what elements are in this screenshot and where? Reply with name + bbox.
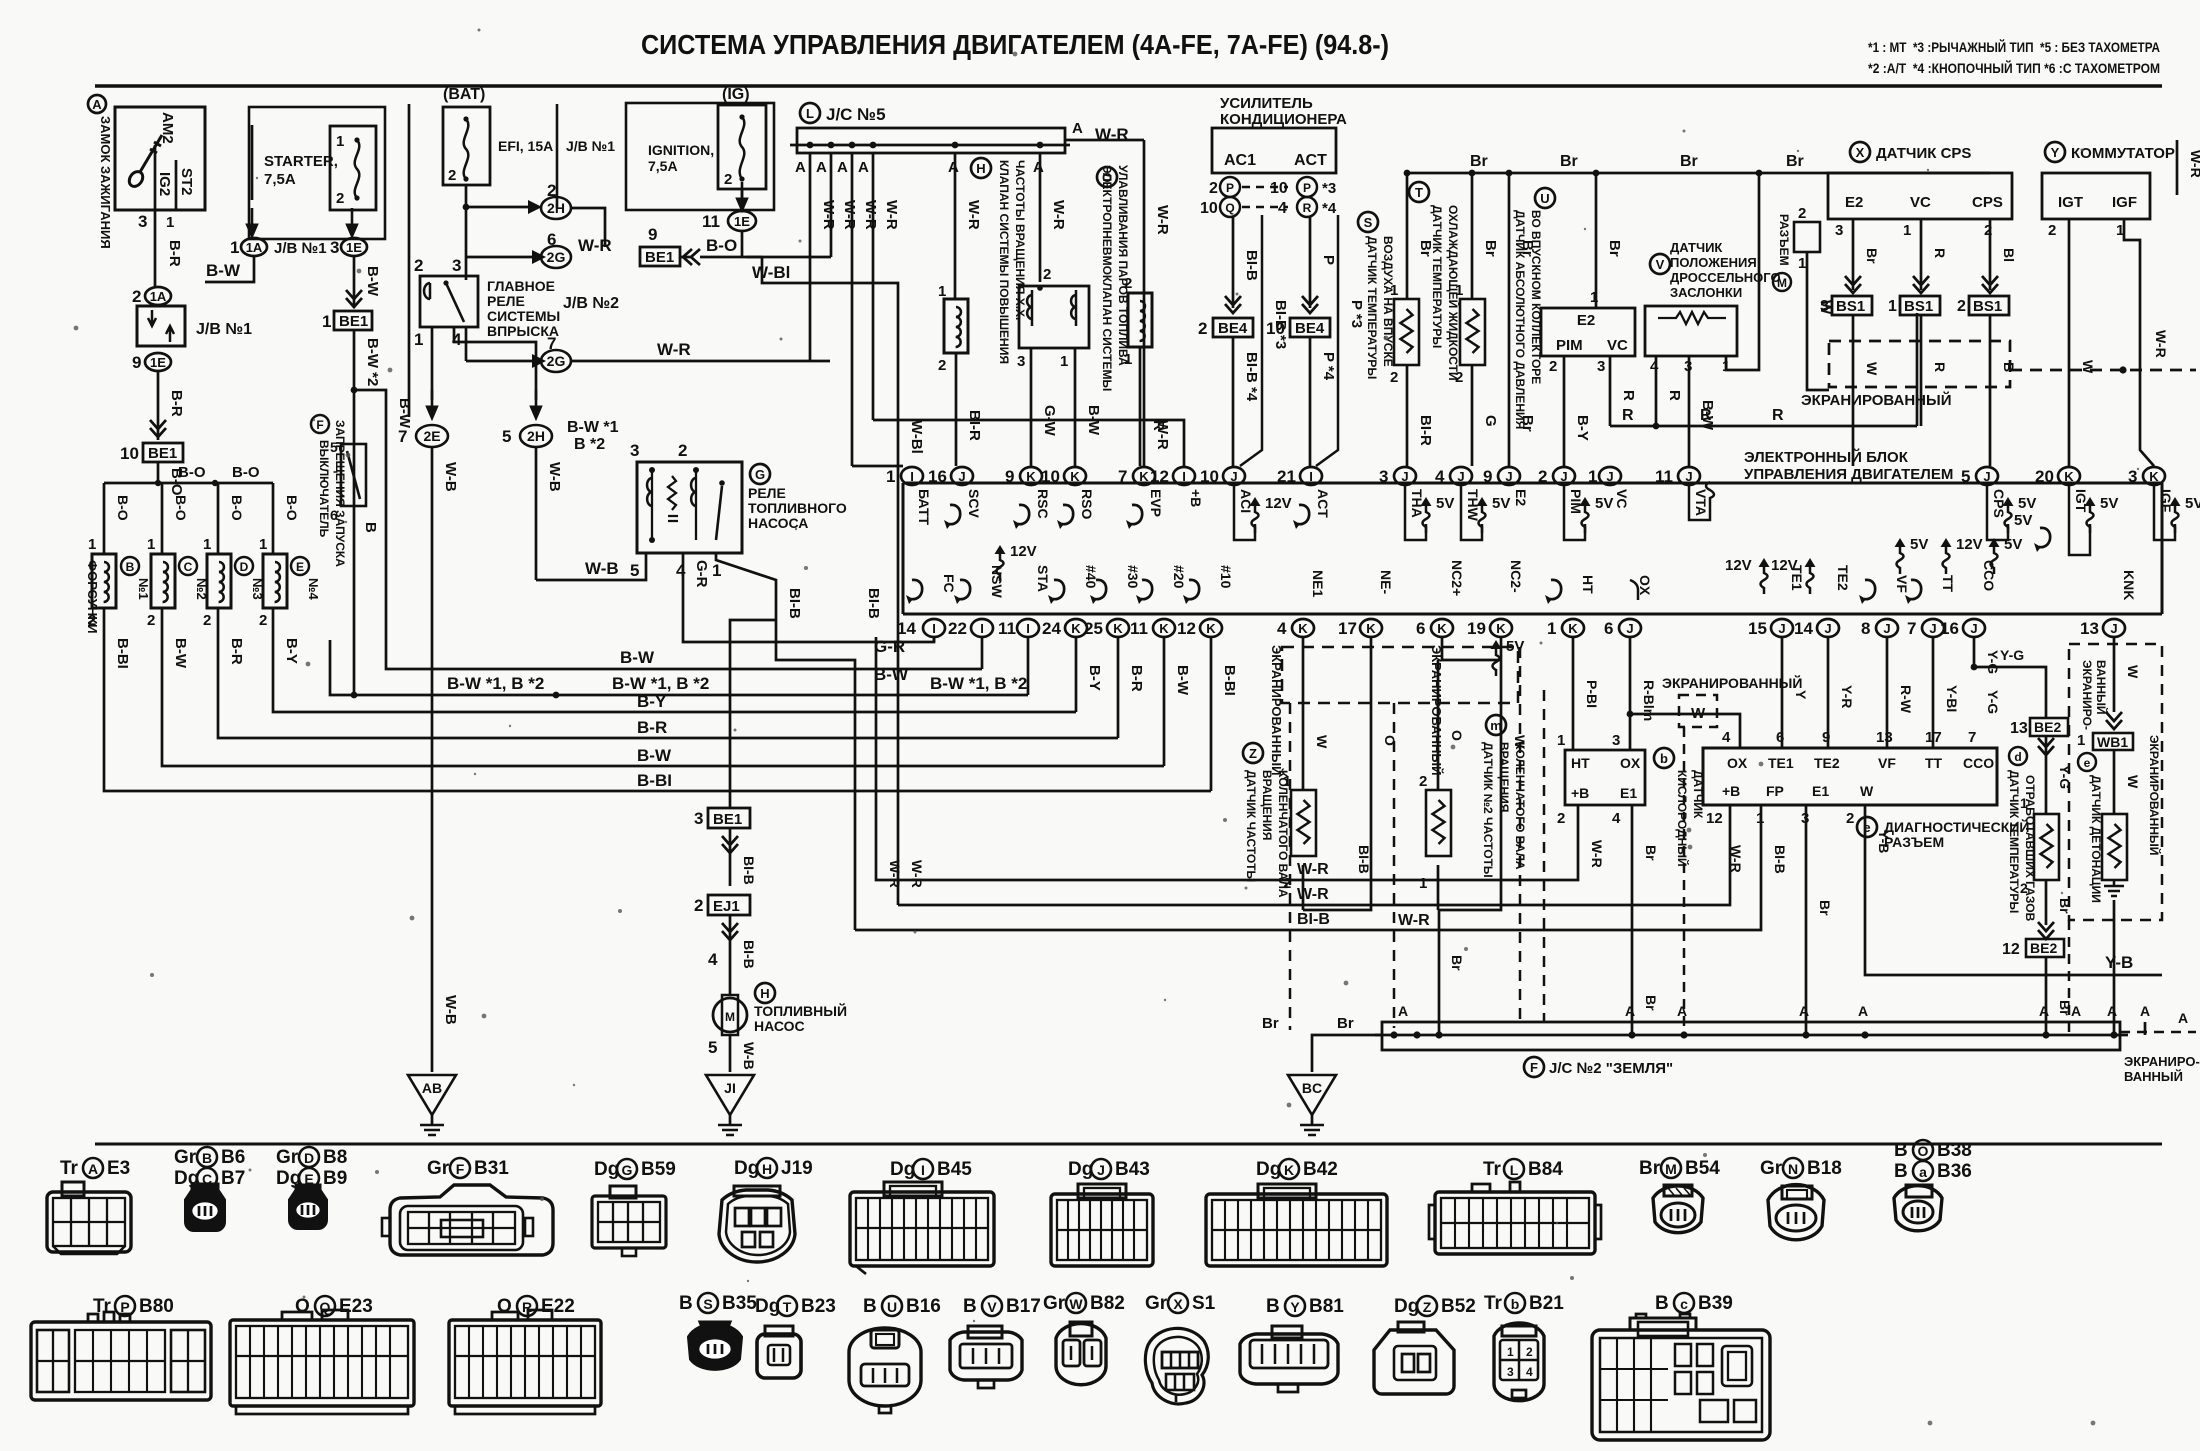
svg-text:B35: B35 bbox=[722, 1293, 757, 1314]
svg-text:IGF: IGF bbox=[2158, 489, 2174, 513]
AC wire BI-B bbox=[1232, 217, 1235, 308]
svg-text:ВЫКЛЮЧАТЕЛЬ: ВЫКЛЮЧАТЕЛЬ bbox=[317, 440, 331, 538]
svg-text:19: 19 bbox=[1467, 619, 1486, 638]
svg-text:B18: B18 bbox=[1807, 1158, 1842, 1179]
svg-text:A: A bbox=[2071, 1003, 2081, 1019]
svg-text:#10: #10 bbox=[1218, 565, 1234, 589]
svg-text:E2: E2 bbox=[1577, 312, 1595, 329]
svg-text:ВАННЫЙ: ВАННЫЙ bbox=[2094, 660, 2109, 714]
throttle sensor box bbox=[1645, 306, 1737, 356]
svg-text:ЭКРАНИРО-: ЭКРАНИРО- bbox=[2124, 1054, 2200, 1069]
svg-text:B-W: B-W bbox=[1085, 405, 1102, 436]
svg-text:R: R bbox=[1700, 407, 1712, 424]
connector E3 bbox=[47, 1182, 131, 1254]
svg-text:Gr: Gr bbox=[427, 1158, 450, 1179]
svg-text:G-R: G-R bbox=[874, 637, 905, 656]
throttle wires bbox=[1655, 356, 1658, 426]
svg-text:A: A bbox=[837, 159, 848, 176]
svg-text:L: L bbox=[1510, 1162, 1519, 1178]
svg-text:3: 3 bbox=[1017, 353, 1025, 370]
svg-text:ЭКРАНИРОВАННЫЙ: ЭКРАНИРОВАННЫЙ bbox=[2147, 735, 2162, 855]
CPS wires to BS1 bbox=[1852, 219, 1855, 290]
svg-text:B81: B81 bbox=[1309, 1296, 1344, 1317]
R bus bbox=[1610, 425, 1917, 428]
svg-text:B-O: B-O bbox=[232, 464, 260, 481]
svg-text:2: 2 bbox=[1043, 266, 1051, 283]
svg-text:БАТТ: БАТТ bbox=[916, 489, 932, 525]
AC wire P bbox=[1309, 217, 1312, 308]
svg-text:K: K bbox=[1071, 621, 1081, 636]
svg-text:NE-: NE- bbox=[1378, 570, 1394, 594]
wire B-O down bbox=[157, 462, 160, 483]
BI-B*4 wire down bbox=[1232, 337, 1235, 466]
svg-text:WB1: WB1 bbox=[2097, 734, 2128, 750]
svg-text:2: 2 bbox=[1538, 467, 1547, 486]
svg-text:Y-G: Y-G bbox=[1985, 690, 2001, 714]
svg-text:ЭКРАНИРОВАННЫЙ: ЭКРАНИРОВАННЫЙ bbox=[1662, 674, 1802, 691]
svg-text:Br: Br bbox=[1643, 995, 1659, 1011]
svg-text:Tr: Tr bbox=[1484, 1293, 1503, 1314]
MAP sensor box bbox=[1541, 308, 1635, 356]
svg-text:B: B bbox=[963, 1296, 977, 1317]
svg-text:1: 1 bbox=[1124, 351, 1132, 368]
svg-text:2: 2 bbox=[1455, 369, 1463, 386]
svg-text:ЭКРАНИРОВАННЫЙ: ЭКРАНИРОВАННЫЙ bbox=[1429, 645, 1444, 775]
svg-text:B36: B36 bbox=[1937, 1161, 1972, 1182]
svg-text:W-Bl: W-Bl bbox=[752, 263, 790, 282]
svg-text:2: 2 bbox=[694, 896, 703, 915]
svg-text:B-W *1: B-W *1 bbox=[567, 419, 619, 436]
svg-text:2: 2 bbox=[1549, 358, 1557, 375]
svg-text:W-R: W-R bbox=[657, 340, 691, 359]
svg-text:ЭКРАНИРОВАННЫЙ: ЭКРАНИРОВАННЫЙ bbox=[1801, 391, 1951, 409]
svg-text:2E: 2E bbox=[423, 428, 440, 444]
shield drain crank1 dashed bbox=[1289, 703, 1292, 1030]
svg-text:Bl: Bl bbox=[2001, 248, 2017, 262]
svg-text:W: W bbox=[1314, 735, 1330, 749]
connector B18 bbox=[1768, 1185, 1824, 1240]
svg-text:H: H bbox=[762, 1161, 772, 1177]
svg-text:B-R: B-R bbox=[166, 240, 183, 267]
svg-text:VF: VF bbox=[1894, 575, 1910, 593]
svg-text:TE1: TE1 bbox=[1768, 755, 1794, 771]
wire 2H right bbox=[571, 208, 605, 247]
ground AB bbox=[408, 1075, 456, 1135]
svg-text:FC: FC bbox=[941, 574, 957, 593]
svg-text:BI-B *4: BI-B *4 bbox=[1243, 352, 1260, 402]
svg-text:8: 8 bbox=[1861, 619, 1870, 638]
svg-text:E2: E2 bbox=[1513, 489, 1529, 506]
svg-text:K: K bbox=[1206, 621, 1216, 636]
ground BC bbox=[1288, 1075, 1336, 1135]
svg-text:A: A bbox=[92, 97, 102, 112]
svg-text:Br: Br bbox=[1262, 1015, 1279, 1032]
svg-text:A: A bbox=[2178, 1010, 2188, 1026]
svg-text:W-R: W-R bbox=[1398, 912, 1430, 929]
BI-B bus 3 bbox=[855, 805, 1761, 930]
svg-text:J: J bbox=[1778, 621, 1785, 636]
svg-text:2: 2 bbox=[1526, 1345, 1533, 1359]
svg-text:A: A bbox=[795, 159, 806, 176]
svg-text:B-R: B-R bbox=[637, 718, 667, 737]
svg-text:Br: Br bbox=[2057, 898, 2073, 914]
P*4 wire down bbox=[1309, 337, 1312, 466]
svg-text:W-B: W-B bbox=[546, 462, 563, 492]
svg-text:B23: B23 bbox=[801, 1296, 836, 1317]
svg-text:B-W: B-W bbox=[396, 398, 413, 429]
svg-text:K: K bbox=[1159, 621, 1169, 636]
svg-text:U: U bbox=[1540, 191, 1549, 206]
svg-text:B-W: B-W bbox=[637, 746, 672, 765]
svg-text:B-R: B-R bbox=[1128, 665, 1145, 692]
svg-text:S: S bbox=[1364, 215, 1373, 230]
svg-text:3: 3 bbox=[1507, 1365, 1514, 1379]
svg-text:W-R: W-R bbox=[883, 200, 900, 230]
Y-G wire to EGR temp sensor bbox=[2045, 736, 2048, 814]
svg-text:Dg: Dg bbox=[734, 1158, 759, 1179]
ignition lock box bbox=[115, 107, 205, 210]
svg-text:B31: B31 bbox=[474, 1158, 509, 1179]
svg-text:J: J bbox=[1626, 621, 1633, 636]
svg-text:B-W: B-W bbox=[1174, 665, 1191, 696]
svg-text:B-R: B-R bbox=[228, 638, 245, 665]
svg-text:5V: 5V bbox=[2018, 495, 2036, 512]
svg-text:4: 4 bbox=[708, 950, 718, 969]
svg-text:1: 1 bbox=[1588, 467, 1597, 486]
svg-text:B54: B54 bbox=[1685, 1158, 1720, 1179]
svg-text:21: 21 bbox=[1277, 467, 1296, 486]
svg-text:N: N bbox=[1788, 1161, 1798, 1177]
svg-text:A: A bbox=[816, 159, 827, 176]
wire injector1 to B-BI bus bbox=[104, 608, 1211, 791]
svg-text:K: K bbox=[1298, 621, 1308, 636]
svg-text:ЭЛЕКТРОПНЕВМОКЛАПАН СИСТЕМЫ: ЭЛЕКТРОПНЕВМОКЛАПАН СИСТЕМЫ bbox=[1100, 165, 1114, 391]
svg-text:9: 9 bbox=[1005, 467, 1014, 486]
svg-text:Br: Br bbox=[1482, 240, 1499, 257]
svg-text:V: V bbox=[1656, 257, 1665, 272]
svg-text:OX: OX bbox=[1727, 755, 1748, 771]
svg-text:A: A bbox=[2039, 1003, 2049, 1019]
svg-text:5V: 5V bbox=[2100, 495, 2118, 512]
svg-text:B43: B43 bbox=[1115, 1159, 1150, 1180]
svg-text:11: 11 bbox=[702, 212, 720, 231]
svg-text:J19: J19 bbox=[781, 1158, 813, 1179]
svg-text:Br: Br bbox=[1560, 153, 1578, 170]
top border rule bbox=[95, 84, 2162, 87]
svg-text:Br: Br bbox=[1680, 153, 1698, 170]
svg-text:5V: 5V bbox=[1595, 495, 1613, 512]
svg-text:#40: #40 bbox=[1083, 565, 1099, 589]
svg-text:2: 2 bbox=[1846, 810, 1854, 827]
svg-text:24: 24 bbox=[1042, 619, 1061, 638]
relay outputs down bbox=[431, 327, 434, 400]
svg-text:Z: Z bbox=[1249, 746, 1257, 761]
svg-text:5: 5 bbox=[330, 439, 338, 455]
svg-text:Y-G: Y-G bbox=[1985, 650, 2001, 674]
svg-text:КОНДИЦИОНЕРА: КОНДИЦИОНЕРА bbox=[1220, 111, 1347, 128]
svg-text:УПРАВЛЕНИЯ ДВИГАТЕЛЕМ: УПРАВЛЕНИЯ ДВИГАТЕЛЕМ bbox=[1744, 466, 1953, 483]
svg-text:K: K bbox=[1366, 621, 1376, 636]
svg-text:2H: 2H bbox=[527, 428, 545, 444]
svg-text:№4: №4 bbox=[306, 578, 321, 600]
svg-text:Y-G: Y-G bbox=[2057, 765, 2073, 789]
connector B6/B7 bbox=[186, 1184, 224, 1230]
svg-text:№1: №1 bbox=[136, 578, 151, 600]
svg-text:O: O bbox=[497, 1296, 512, 1317]
svg-text:1A: 1A bbox=[150, 289, 167, 304]
J/B No1 separator bbox=[556, 104, 559, 208]
svg-text:12V: 12V bbox=[1265, 495, 1292, 512]
fuel pump relay box bbox=[637, 462, 742, 553]
svg-text:X: X bbox=[1856, 145, 1865, 160]
W-B below pump bbox=[729, 1035, 732, 1072]
BS1 wires down bbox=[1852, 315, 1855, 466]
oxygen sensor designator b bbox=[1654, 748, 1674, 768]
J/C No2 designator f bbox=[1524, 1057, 1544, 1077]
svg-text:*2 :А/Т *4 :КНОПОЧНЫЙ ТИП *6: *2 :А/Т *4 :КНОПОЧНЫЙ ТИП *6 :С ТАХОМЕТР… bbox=[1868, 59, 2160, 76]
EFI fuse box bbox=[443, 107, 490, 185]
throttle sensor designator V bbox=[1650, 254, 1670, 274]
svg-text:4: 4 bbox=[1277, 619, 1287, 638]
svg-text:ВАННЫЙ: ВАННЫЙ bbox=[2124, 1069, 2183, 1084]
svg-text:A: A bbox=[1072, 120, 1083, 137]
svg-text:2: 2 bbox=[1957, 298, 1966, 315]
svg-text:2G: 2G bbox=[547, 353, 566, 369]
svg-text:6: 6 bbox=[330, 507, 338, 523]
svg-text:B-BI: B-BI bbox=[114, 638, 131, 669]
diag W wire to Y-B bbox=[1865, 805, 2162, 975]
svg-text:B: B bbox=[126, 560, 135, 574]
B-O distribution bus bbox=[104, 482, 273, 485]
svg-text:ЭЛЕКТРОННЫЙ БЛОК: ЭЛЕКТРОННЫЙ БЛОК bbox=[1744, 448, 1909, 466]
svg-text:2: 2 bbox=[1209, 180, 1218, 197]
svg-text:TT: TT bbox=[1940, 575, 1956, 593]
svg-text:A: A bbox=[1398, 1003, 1408, 1019]
svg-text:E1: E1 bbox=[1620, 785, 1637, 801]
svg-text:3: 3 bbox=[452, 256, 461, 275]
svg-text:P: P bbox=[1320, 255, 1337, 265]
svg-text:2: 2 bbox=[2048, 222, 2056, 239]
svg-text:IGF: IGF bbox=[2112, 194, 2137, 211]
connector B54 bbox=[1653, 1185, 1703, 1233]
svg-text:12V: 12V bbox=[1725, 557, 1752, 574]
dashed shield drain to right bbox=[2010, 369, 2196, 372]
svg-text:B-W: B-W bbox=[172, 638, 189, 669]
svg-text:4: 4 bbox=[676, 561, 686, 580]
crank sensor 2 designator m bbox=[1486, 715, 1506, 735]
shield wire W from connector bbox=[1807, 252, 1829, 390]
svg-text:10: 10 bbox=[120, 444, 139, 463]
svg-text:E22: E22 bbox=[541, 1296, 575, 1317]
svg-text:1: 1 bbox=[322, 312, 331, 331]
W-B wire from 2H down bbox=[535, 447, 538, 580]
svg-text:S: S bbox=[703, 1296, 712, 1312]
svg-text:EJ1: EJ1 bbox=[713, 898, 740, 915]
svg-text:*3: *3 bbox=[1322, 180, 1336, 197]
svg-text:W: W bbox=[1864, 362, 1880, 376]
svg-text:ВРАЩЕНИЯ: ВРАЩЕНИЯ bbox=[1497, 742, 1511, 812]
bottom separator rule bbox=[95, 1143, 2162, 1146]
svg-text:16: 16 bbox=[928, 467, 947, 486]
svg-text:Gr: Gr bbox=[1145, 1293, 1168, 1314]
svg-text:W: W bbox=[2080, 360, 2096, 374]
svg-text:B-W *1, B *2: B-W *1, B *2 bbox=[612, 674, 709, 693]
svg-text:J: J bbox=[1970, 621, 1977, 636]
svg-text:1E: 1E bbox=[150, 355, 166, 370]
svg-text:BE1: BE1 bbox=[645, 249, 674, 266]
svg-text:OX: OX bbox=[1637, 575, 1653, 596]
W wire to knock bbox=[2113, 750, 2116, 814]
svg-text:7: 7 bbox=[1118, 467, 1127, 486]
svg-text:W: W bbox=[2125, 665, 2141, 679]
svg-text:1: 1 bbox=[938, 283, 946, 300]
svg-text:E23: E23 bbox=[339, 1296, 373, 1317]
svg-text:10: 10 bbox=[1041, 467, 1060, 486]
svg-text:M: M bbox=[725, 1010, 735, 1024]
svg-text:2: 2 bbox=[724, 171, 732, 188]
svg-text:B8: B8 bbox=[323, 1147, 347, 1168]
svg-text:2: 2 bbox=[336, 190, 344, 207]
svg-text:R-W: R-W bbox=[1898, 685, 1914, 714]
ECU band top line bbox=[903, 482, 2162, 485]
svg-text:1A: 1A bbox=[246, 240, 263, 255]
svg-text:B-W: B-W bbox=[364, 266, 381, 297]
PIM wire B-Y bbox=[1563, 356, 1566, 466]
svg-text:B-R: B-R bbox=[168, 390, 185, 417]
svg-text:9: 9 bbox=[132, 353, 141, 372]
svg-text:T: T bbox=[783, 1299, 792, 1315]
svg-text:Tr: Tr bbox=[60, 1158, 79, 1179]
svg-text:JI: JI bbox=[724, 1080, 736, 1096]
svg-text:J: J bbox=[1685, 469, 1692, 484]
svg-text:1: 1 bbox=[1455, 282, 1463, 299]
svg-text:A: A bbox=[1799, 1003, 1809, 1019]
svg-text:RSO: RSO bbox=[1079, 489, 1095, 519]
svg-text:РЕЛЕ: РЕЛЕ bbox=[487, 293, 525, 309]
svg-text:J: J bbox=[1097, 1162, 1105, 1178]
svg-text:W: W bbox=[1860, 783, 1874, 799]
connector B31 bbox=[382, 1185, 553, 1255]
svg-text:1: 1 bbox=[1798, 255, 1806, 272]
Br ground return crank2 bbox=[1438, 910, 1441, 1035]
svg-text:3: 3 bbox=[630, 441, 639, 460]
svg-text:B-W: B-W bbox=[206, 261, 241, 280]
svg-text:B52: B52 bbox=[1441, 1296, 1476, 1317]
svg-text:G: G bbox=[622, 1162, 633, 1178]
svg-text:BI-B: BI-B bbox=[741, 856, 757, 885]
svg-text:NE1: NE1 bbox=[1310, 570, 1326, 597]
svg-text:J/C №5: J/C №5 bbox=[826, 105, 886, 124]
inhibitor switch label F bbox=[311, 415, 329, 433]
svg-text:W-Bl: W-Bl bbox=[908, 420, 925, 454]
svg-text:b: b bbox=[1660, 751, 1668, 766]
AC amplifier box bbox=[1212, 128, 1336, 173]
svg-text:b: b bbox=[1511, 1296, 1520, 1312]
svg-text:+B: +B bbox=[1722, 783, 1740, 799]
P*3 bypass bbox=[1316, 215, 1338, 466]
branch to B-W bus bbox=[354, 390, 386, 640]
ISC valve designator H bbox=[971, 158, 991, 178]
svg-text:ЗАСЛОНКИ: ЗАСЛОНКИ bbox=[1670, 285, 1742, 300]
svg-text:P-BI: P-BI bbox=[1584, 680, 1600, 708]
svg-text:H: H bbox=[760, 986, 769, 1001]
connector B17 bbox=[950, 1326, 1022, 1388]
wire injector3 to B-R bus bbox=[218, 608, 1118, 738]
svg-text:Dg: Dg bbox=[1068, 1159, 1093, 1180]
svg-text:G-W: G-W bbox=[1041, 405, 1058, 437]
connector B39 bbox=[1592, 1314, 1770, 1440]
svg-text:2: 2 bbox=[147, 612, 155, 629]
svg-text:ACT: ACT bbox=[1294, 152, 1327, 169]
svg-text:W-R: W-R bbox=[887, 860, 903, 888]
EGR temp sensor designator d bbox=[2009, 747, 2027, 765]
short tap stubs bbox=[2068, 920, 2071, 1035]
W-R bus 2 bbox=[898, 805, 1730, 905]
svg-text:ВРАЩЕНИЯ: ВРАЩЕНИЯ bbox=[1260, 770, 1274, 840]
svg-text:W-R: W-R bbox=[820, 200, 837, 230]
svg-text:B80: B80 bbox=[139, 1296, 174, 1317]
svg-text:12V: 12V bbox=[1771, 557, 1798, 574]
svg-text:6: 6 bbox=[1416, 619, 1425, 638]
svg-text:2: 2 bbox=[448, 167, 456, 184]
svg-text:13: 13 bbox=[1876, 729, 1893, 746]
svg-text:F: F bbox=[456, 1161, 465, 1177]
HT OX heater box bbox=[1565, 750, 1645, 805]
svg-text:AC1: AC1 bbox=[1224, 152, 1256, 169]
ground JI bbox=[706, 1075, 754, 1135]
svg-text:4: 4 bbox=[1722, 729, 1731, 746]
svg-text:12: 12 bbox=[2002, 941, 2020, 958]
svg-text:B-O: B-O bbox=[178, 464, 206, 481]
E2 return wire bbox=[1508, 173, 1511, 466]
svg-text:A: A bbox=[1033, 159, 1044, 176]
B-W bus upper bbox=[386, 640, 982, 669]
svg-text:K: K bbox=[1437, 621, 1447, 636]
OX shield link bbox=[1630, 700, 1717, 760]
svg-text:W-R: W-R bbox=[862, 200, 879, 230]
svg-text:B-Y: B-Y bbox=[283, 638, 300, 664]
svg-text:Br: Br bbox=[1817, 900, 1833, 916]
J/B No2 boundary bbox=[408, 104, 411, 417]
svg-text:BI-B: BI-B bbox=[1356, 845, 1372, 874]
W-R bus 1 bbox=[876, 637, 1578, 880]
svg-text:P: P bbox=[1226, 181, 1234, 195]
svg-text:B17: B17 bbox=[1006, 1296, 1041, 1317]
svg-text:W-B: W-B bbox=[442, 462, 459, 492]
commutator designator Y bbox=[2045, 142, 2065, 162]
svg-text:K: K bbox=[1070, 469, 1080, 484]
svg-text:BE4: BE4 bbox=[1218, 320, 1248, 337]
svg-text:J: J bbox=[1505, 469, 1512, 484]
intake air temp sensor designator S bbox=[1358, 212, 1378, 232]
svg-text:4: 4 bbox=[1612, 810, 1621, 827]
svg-text:1: 1 bbox=[1390, 282, 1398, 299]
ECU band bottom line bbox=[903, 613, 2162, 616]
svg-text:Z: Z bbox=[1423, 1299, 1432, 1315]
svg-text:ПОЛОЖЕНИЯ: ПОЛОЖЕНИЯ bbox=[1670, 255, 1757, 270]
svg-text:I: I bbox=[1309, 469, 1313, 484]
svg-text:3: 3 bbox=[2128, 467, 2137, 486]
J/C No5 drop wires bbox=[809, 153, 812, 361]
svg-text:6: 6 bbox=[1604, 619, 1613, 638]
svg-text:SCV: SCV bbox=[966, 489, 982, 518]
svg-text:1: 1 bbox=[2077, 732, 2085, 749]
Br feed to BC ground bbox=[1312, 1035, 1382, 1072]
svg-text:VTA: VTA bbox=[1693, 489, 1709, 516]
svg-text:J/B №1: J/B №1 bbox=[566, 138, 615, 154]
diagnostic connector box bbox=[1703, 748, 1997, 805]
svg-text:5V: 5V bbox=[1436, 495, 1454, 512]
